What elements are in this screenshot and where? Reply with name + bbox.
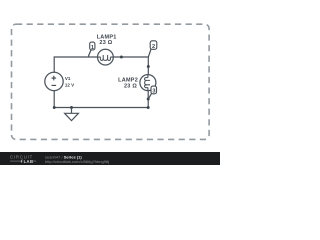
- node 1 flag: [88, 42, 95, 56]
- CircuitLab logo: [10, 154, 33, 159]
- wire: bottom return wire: [54, 107, 148, 109]
- label V1: [65, 76, 71, 81]
- svg-text:http://circuitlab.com/c/566g7h: http://circuitlab.com/c/566g7hbng98j: [45, 159, 109, 164]
- svg-text:23 Ω: 23 Ω: [124, 84, 137, 90]
- label LAMP2: [118, 78, 138, 84]
- node 2 flag: [148, 41, 156, 57]
- svg-text:LAMP2: LAMP2: [118, 78, 138, 84]
- label LAMP1: [97, 35, 117, 41]
- svg-text:V1: V1: [65, 76, 71, 81]
- node 3 flag: [148, 86, 156, 99]
- voltage source V1: [45, 72, 63, 90]
- label 23 ohm (LAMP2): [124, 84, 137, 90]
- footer text line 2: [45, 159, 109, 164]
- footer bar: [0, 152, 220, 165]
- wire: LAMP2 bottom lead: [147, 91, 149, 108]
- svg-text:3: 3: [152, 89, 155, 95]
- svg-text:23 Ω: 23 Ω: [99, 40, 112, 46]
- wire: LAMP1 right lead to corner and down to LAMP2 top: [113, 57, 148, 75]
- lamp LAMP2: [140, 75, 156, 91]
- label 23 ohm (LAMP1): [99, 40, 112, 46]
- svg-text:2: 2: [152, 44, 155, 50]
- svg-text:1: 1: [91, 45, 94, 51]
- schematic dashed border: [12, 24, 210, 139]
- wire: V1 top lead up and across to LAMP1: [54, 57, 97, 72]
- wire: V1 bottom lead: [53, 91, 55, 108]
- node junction dot (LAMP2 top terminal): [147, 65, 150, 68]
- footer text line 1: [45, 154, 82, 159]
- junction dot ground tap: [70, 106, 73, 109]
- ground: [65, 108, 79, 121]
- label 12 V: [65, 83, 74, 88]
- lamp LAMP1: [98, 49, 114, 65]
- svg-text:LAB: LAB: [24, 159, 34, 164]
- svg-text:12 V: 12 V: [65, 83, 74, 88]
- junction dot bottom-left corner: [53, 106, 56, 109]
- node junction dot (LAMP1 right terminal): [120, 56, 123, 59]
- junction dot LAMP2 bottom terminal: [147, 98, 150, 101]
- junction dot bottom-right corner: [147, 106, 150, 109]
